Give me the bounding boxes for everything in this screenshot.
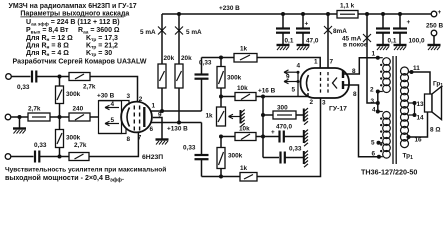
resistor 240 bias divider <box>69 106 90 122</box>
transformer primary winding lower <box>383 112 391 159</box>
wire 240 to +30V box <box>90 116 99 118</box>
cathode node column <box>262 97 264 158</box>
svg-text:2: 2 <box>370 87 374 94</box>
ground pin 9 <box>156 140 169 145</box>
svg-text:16: 16 <box>415 137 423 144</box>
svg-text:0,33: 0,33 <box>199 60 212 67</box>
node pin 3 <box>371 98 380 105</box>
top rail right section 250V <box>358 13 431 15</box>
wire cathode to GU17 pin 2 <box>263 93 308 97</box>
capacitor 470,0 cathode bypass <box>263 124 304 143</box>
svg-text:0,33: 0,33 <box>34 142 47 149</box>
svg-text:в покое: в покое <box>343 42 368 49</box>
svg-text:3: 3 <box>127 93 131 100</box>
svg-text:300k: 300k <box>227 75 242 82</box>
svg-text:+: + <box>271 129 275 136</box>
wire secondary pin 15 to speaker <box>407 112 428 144</box>
capacitor 47,0 electrolytic <box>296 14 319 45</box>
current mark 5mA right <box>175 27 202 37</box>
svg-text:300k: 300k <box>66 91 81 98</box>
GU-17 grid 1 dashes <box>320 72 322 93</box>
GU-17 grid 2 dashes <box>327 72 329 93</box>
input terminal 2 <box>5 154 11 160</box>
svg-text:4: 4 <box>297 63 301 70</box>
wire 20k2 to anode row 2 <box>178 88 180 123</box>
svg-text:4: 4 <box>111 101 115 108</box>
ground cap 47,0 <box>297 45 310 50</box>
wire 10k to cathode node <box>256 96 263 98</box>
svg-text:8: 8 <box>353 91 357 98</box>
svg-text:0,1: 0,1 <box>285 38 294 45</box>
top power rail +230V <box>162 13 337 15</box>
svg-text:0,33: 0,33 <box>289 146 302 153</box>
node grid 2 <box>58 155 62 159</box>
wire 20k column 1 from rail <box>161 14 163 64</box>
node cathode top <box>261 95 265 99</box>
svg-text:ТН36-127/220-50: ТН36-127/220-50 <box>361 167 417 176</box>
transformer primary winding upper <box>383 58 391 93</box>
resistor 2,7k bias divider <box>28 106 50 122</box>
svg-text:Чувствительность усилителя при: Чувствительность усилителя при максималь… <box>5 165 166 173</box>
node rail anode CT feed <box>365 12 369 16</box>
chassis ground 300 <box>304 108 308 125</box>
transformer secondary winding <box>401 67 409 148</box>
title text line 2 underlined <box>20 11 129 18</box>
resistor 1k grid stopper lower <box>240 165 257 181</box>
wire 45mA feed to transformer CT <box>367 14 378 103</box>
svg-text:6: 6 <box>372 151 376 158</box>
svg-text:2,7k: 2,7k <box>83 84 96 91</box>
svg-text:250 В: 250 В <box>426 23 443 30</box>
current mark 8mA <box>324 26 347 35</box>
svg-text:10k: 10k <box>237 85 248 92</box>
wire cathode1 pin 3 to box top <box>99 101 130 105</box>
heater arrow pin 5 <box>105 117 119 126</box>
svg-text:5 mA: 5 mA <box>140 29 156 36</box>
heater arrow pin 4 <box>105 101 119 110</box>
node A <box>219 95 223 99</box>
svg-text:3: 3 <box>322 100 326 107</box>
resistor 1,1k in rail <box>337 3 358 19</box>
svg-text:5: 5 <box>111 117 115 124</box>
resistor 300k grid leak 1 <box>56 77 81 118</box>
svg-text:100,0: 100,0 <box>409 38 425 45</box>
GU-17 cathode arc <box>307 75 309 91</box>
wire cap2 to grid node 2 <box>39 156 69 158</box>
svg-text:5: 5 <box>292 87 296 94</box>
6N23P grid 2 dashes <box>139 106 141 131</box>
current mark 5mA left <box>140 27 166 37</box>
wire cap to grid node 1 <box>36 76 69 78</box>
svg-text:9: 9 <box>286 74 290 81</box>
svg-text:1k: 1k <box>206 113 214 120</box>
svg-text:0,1: 0,1 <box>388 38 397 45</box>
svg-text:0,33: 0,33 <box>17 84 30 91</box>
svg-text:1: 1 <box>314 59 318 66</box>
svg-text:8mA: 8mA <box>333 28 347 35</box>
secondary jumper pins 13-14 <box>409 101 425 122</box>
node pin 6 <box>372 151 383 159</box>
node rail 20k column 2 <box>177 12 181 16</box>
GU17 heater bar pin 9 <box>286 72 298 96</box>
svg-text:выходной мощности - 2×0,4 Вэфф: выходной мощности - 2×0,4 Вэфф. <box>5 174 124 183</box>
capacitor 0,1 (rail bypass 2) <box>376 14 397 45</box>
primary upper junction dots <box>380 64 382 87</box>
capacitor 100,0 electrolytic <box>393 14 425 45</box>
node divider mid <box>58 115 62 119</box>
GU-17 beam plates <box>333 78 338 89</box>
svg-text:11: 11 <box>413 65 420 72</box>
resistor 300k grid leak 2 <box>56 117 81 157</box>
svg-text:3: 3 <box>371 98 375 105</box>
svg-text:300k: 300k <box>66 135 81 142</box>
node rail cap 100,0 <box>398 12 402 16</box>
capacitor 0,33 input 2 <box>34 142 47 163</box>
svg-text:470,0: 470,0 <box>276 124 292 131</box>
capacitor 0,1 (rail bypass 1) <box>276 14 294 45</box>
svg-text:6: 6 <box>150 126 154 133</box>
ground cap 100,0 <box>394 45 407 50</box>
input terminal 1 <box>6 74 12 80</box>
svg-text:Разработчик Сергей Комаров UA3: Разработчик Сергей Комаров UA3ALW <box>13 58 147 66</box>
node 300k lower tap <box>219 175 223 179</box>
GU-17 anode bar 2 <box>342 81 344 89</box>
svg-text:13: 13 <box>417 101 425 108</box>
wire to 6N23P grid pin 7 <box>89 133 138 157</box>
tube 6N23P envelope <box>121 102 152 133</box>
wire screen feed to GU-17 pin 7 <box>327 14 329 69</box>
resistor 10k upper <box>221 85 256 101</box>
terminal 250V minus <box>431 30 437 44</box>
svg-text:ГУ-17: ГУ-17 <box>329 106 347 113</box>
node rail cap 47,0 <box>301 12 305 16</box>
resistor 1k grid stopper upper <box>234 46 257 63</box>
input common terminal <box>5 114 11 120</box>
svg-text:5 mA: 5 mA <box>186 29 202 36</box>
node cathode 470 row <box>261 135 265 139</box>
6N23P anode bars <box>143 107 145 127</box>
node grid 1 <box>58 75 62 79</box>
svg-text:6Н23П: 6Н23П <box>142 154 163 161</box>
svg-text:10k: 10k <box>239 126 250 133</box>
ground cap 0,1 #1 <box>277 45 290 50</box>
svg-text:+16 В: +16 В <box>258 88 276 95</box>
capacitor 0,33 input 1 <box>17 71 36 92</box>
speaker Gr1 <box>425 81 444 120</box>
svg-text:47,0: 47,0 <box>306 38 319 45</box>
svg-text:7: 7 <box>138 135 142 142</box>
svg-text:240: 240 <box>73 106 84 113</box>
terminal 250V plus <box>431 9 441 17</box>
wire divider middle <box>50 116 69 118</box>
svg-text:1,1 k: 1,1 k <box>340 3 355 10</box>
chassis ground 0,33 <box>304 151 308 168</box>
node common ground <box>18 115 22 119</box>
node pin 1 <box>372 51 383 60</box>
wire grid row A <box>202 58 321 69</box>
svg-text:0,33: 0,33 <box>183 145 196 152</box>
6N23P grid 1 dashes <box>133 106 135 131</box>
capacitor 0,33 coupling lower <box>183 123 209 177</box>
svg-text:300: 300 <box>277 105 288 112</box>
resistor 300k GU17 grid leak upper <box>217 58 242 108</box>
svg-text:+: + <box>305 21 309 28</box>
resistor 10k lower <box>221 126 256 141</box>
svg-text:8 Ω: 8 Ω <box>430 127 440 134</box>
node B <box>219 135 223 139</box>
wire secondary pin 11 to speaker <box>409 65 431 94</box>
primary lower junction dots <box>380 117 382 152</box>
svg-text:+230 В: +230 В <box>219 5 240 12</box>
svg-text:14: 14 <box>417 115 425 122</box>
GU17 heater arrow pin 4 <box>284 63 301 75</box>
svg-text:7: 7 <box>330 59 334 66</box>
node rail cap 0,1 #2 <box>381 12 385 16</box>
svg-text:20k: 20k <box>164 55 175 62</box>
node rail cap 0,1 #1 <box>281 12 285 16</box>
wire anode2 row <box>151 122 201 124</box>
capacitor 0,33 cathode HF bypass <box>263 146 304 164</box>
svg-text:+130 В: +130 В <box>167 126 188 133</box>
svg-text:5: 5 <box>371 140 375 147</box>
svg-text:+: + <box>407 19 411 26</box>
wire 10k lower to cathode node <box>256 136 263 138</box>
svg-text:2: 2 <box>310 99 314 106</box>
svg-text:2,7k: 2,7k <box>74 142 87 149</box>
6N23P cathode arc 1 <box>127 108 130 127</box>
wire 20k1 to anode row <box>161 88 163 111</box>
GU17 heater arrow pin 5 <box>284 79 300 93</box>
trimmer wiper arrow to chassis <box>229 110 245 127</box>
node rail screen feed 8mA <box>326 12 330 16</box>
tube GU-17 envelope <box>301 68 350 98</box>
svg-text:300k: 300k <box>228 153 243 160</box>
node 300k upper tap <box>219 56 223 60</box>
resistor 300 cathode <box>263 105 304 120</box>
svg-text:1: 1 <box>152 103 156 110</box>
wire to 6N23P grid pin 2 <box>90 77 138 103</box>
svg-text:1: 1 <box>372 51 376 58</box>
wire pin9 shield to ground <box>153 118 162 140</box>
resistor 300k GU17 grid leak lower <box>217 137 243 177</box>
resistor 20k (anode load 1) <box>158 55 175 88</box>
ground at 250V minus terminal <box>428 45 441 50</box>
node anode2 20k <box>177 121 181 125</box>
svg-text:2: 2 <box>139 96 143 103</box>
svg-text:8: 8 <box>127 136 131 143</box>
wire common to 2,7k <box>11 116 28 118</box>
resistor 2,7k grid stopper 1 <box>69 73 96 91</box>
wire cathode2 pin 8 to box bottom <box>99 128 127 134</box>
trimmer 1k balance <box>206 107 226 126</box>
wire GU17 anode bottom to transformer pin 6 <box>343 85 379 157</box>
transformer core <box>393 56 396 164</box>
svg-text:4: 4 <box>372 107 376 114</box>
svg-text:+: + <box>438 9 442 16</box>
current mark 45mA <box>342 34 371 49</box>
wire 20k column 2 from rail <box>178 14 180 64</box>
svg-text:+30 В: +30 В <box>97 93 115 100</box>
capacitor 0,33 coupling upper <box>195 58 212 112</box>
chassis ground 470 <box>304 130 308 147</box>
ground input common <box>13 117 26 134</box>
svg-text:УМЗЧ на радиолампах 6Н23П и ГУ: УМЗЧ на радиолампах 6Н23П и ГУ-17 <box>9 3 137 10</box>
wire input2 to cap <box>11 156 34 158</box>
ground cap 0,1 #2 <box>377 45 390 50</box>
node pin 2 <box>370 87 383 94</box>
svg-text:1k: 1k <box>240 46 248 53</box>
node cathode 300 row <box>261 113 265 117</box>
wire input1 to cap <box>11 76 30 78</box>
GU-17 anode bar 1 <box>342 70 344 78</box>
node anode1 20k <box>160 109 164 113</box>
transformer primary jumper pins 2-3-4 <box>377 92 379 112</box>
svg-text:1k: 1k <box>240 165 248 172</box>
svg-text:2,7k: 2,7k <box>28 106 41 113</box>
wire GU17 anode top to transformer pin 1 <box>343 58 378 74</box>
+30V heater box <box>97 93 122 134</box>
resistor 2,7k grid stopper 2 <box>69 142 89 161</box>
svg-text:20k: 20k <box>181 55 192 62</box>
node pin 5 <box>371 140 383 147</box>
node pin 4 <box>372 107 383 114</box>
wire bottom grid row <box>202 98 321 176</box>
resistor 20k (anode load 2) <box>175 55 192 88</box>
wire anode1 row <box>151 110 201 112</box>
